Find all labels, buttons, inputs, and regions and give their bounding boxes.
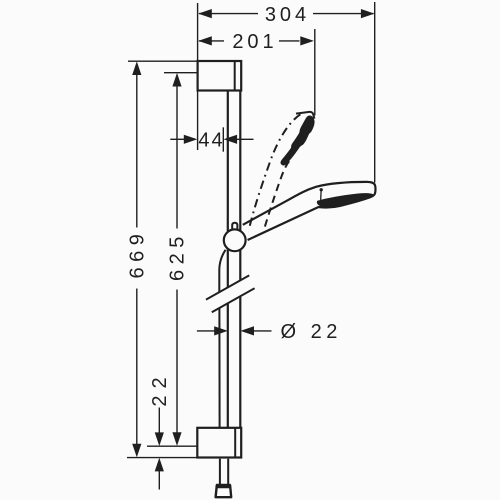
dashed head spray strip <box>281 116 314 165</box>
spray select button <box>320 188 323 191</box>
hand shower (dashed alternate position) <box>250 112 315 227</box>
wire: 44 right extension line <box>222 127 224 151</box>
rail right line <box>239 91 241 281</box>
hose cone nut (dark top bar) <box>216 484 231 488</box>
dimension 625 vertical line <box>176 86 178 433</box>
dashed outer edge <box>250 113 303 226</box>
hose <box>219 250 225 292</box>
wire: wall extension line <box>197 3 199 150</box>
svg-text:201: 201 <box>232 31 277 53</box>
svg-text:22: 22 <box>149 370 171 406</box>
break line upper <box>206 275 249 299</box>
wire: 304 right extension line <box>374 2 376 183</box>
dashed inner edge <box>265 159 291 227</box>
dashed head tip <box>296 112 314 119</box>
top wall bracket <box>198 61 242 91</box>
dimension 201 <box>199 40 300 42</box>
spray face (dark band) <box>317 194 373 207</box>
hose cone fitting <box>216 485 232 497</box>
dimension Ø22 <box>197 330 215 332</box>
svg-text:625: 625 <box>167 231 189 281</box>
dimension 44 <box>170 138 184 140</box>
wire: 201 right extension line <box>314 29 316 116</box>
wire: top extension line y61 <box>128 60 198 62</box>
svg-text:304: 304 <box>265 4 310 26</box>
hand shower (solid) <box>243 182 376 240</box>
dimension 669 vertical line <box>136 74 138 445</box>
break line lower <box>212 288 255 312</box>
holder knob <box>232 223 237 231</box>
rail left line <box>227 91 229 288</box>
svg-text:669: 669 <box>127 229 149 279</box>
hose below bracket <box>220 459 228 485</box>
wire: bottom extension line B y457.6 <box>127 457 197 459</box>
wire: top extension line y72.5 <box>164 72 198 74</box>
bottom wall bracket <box>197 428 241 458</box>
dimension 304 <box>199 13 374 15</box>
holder circle <box>224 229 246 251</box>
dimension 22 (bottom left) <box>158 408 160 434</box>
svg-text:44: 44 <box>198 130 224 152</box>
svg-text:Ø 22: Ø 22 <box>281 321 342 343</box>
wire: bottom extension line A y446 <box>147 445 197 447</box>
